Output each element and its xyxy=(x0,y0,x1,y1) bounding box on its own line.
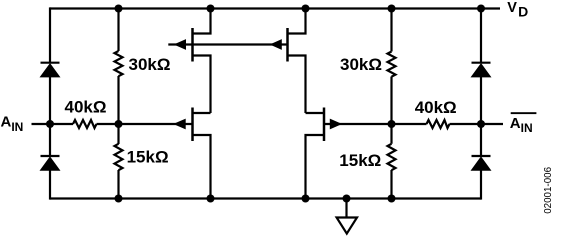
node dot top col5 xyxy=(388,5,396,13)
wire source Q4 xyxy=(306,135,325,199)
gate arrow Q3 xyxy=(175,119,186,128)
wire top rail VD xyxy=(50,7,500,9)
wire column5 mid xyxy=(390,77,392,144)
wire gate Q4 to node xyxy=(324,123,427,125)
svg-text:40kΩ: 40kΩ xyxy=(65,98,107,117)
node AIN xyxy=(46,120,54,128)
wire gate Q3 to bar xyxy=(97,123,193,125)
wire drain Q4 xyxy=(306,112,325,114)
wire drain Q1 xyxy=(193,9,211,34)
node dot ground tap xyxy=(343,195,351,203)
transistor Q2 channel bar xyxy=(286,28,289,62)
wire left column mid xyxy=(49,76,51,156)
wire column6 lower xyxy=(480,170,482,200)
resistor R3 40k left xyxy=(73,120,97,128)
svg-text:40kΩ: 40kΩ xyxy=(415,98,457,117)
wire column6 upper xyxy=(480,7,482,62)
transistor Q1 channel bar xyxy=(191,28,194,62)
node dot top col2 xyxy=(115,5,123,13)
wire column5 lower xyxy=(390,170,392,199)
gate arrow Q1 xyxy=(175,40,186,49)
diode D4 xyxy=(472,156,491,170)
wire left column lower xyxy=(49,170,51,200)
node dot mid col5 xyxy=(388,120,396,128)
svg-text:VD: VD xyxy=(507,0,528,19)
svg-text:15kΩ: 15kΩ xyxy=(127,148,169,167)
node dot bottom col3 xyxy=(207,195,215,203)
wire source Q1 xyxy=(193,56,211,114)
wire drain Q3 xyxy=(193,112,211,114)
ground xyxy=(337,218,357,234)
resistor R6 15k right xyxy=(388,144,396,170)
wire gate line Q1 Q2 xyxy=(168,43,287,45)
node dot bottom col4 xyxy=(302,195,310,203)
node dot mid col2 xyxy=(115,120,123,128)
resistor R1 30k left xyxy=(115,51,123,76)
resistor R5 30k right xyxy=(388,52,396,77)
wire source Q3 xyxy=(193,135,211,199)
transistor Q3 channel bar xyxy=(191,108,194,142)
diode D2 xyxy=(41,156,60,170)
wire source Q2 xyxy=(288,56,306,114)
wire ground stub xyxy=(345,199,347,218)
diode D1 xyxy=(41,63,60,77)
wire gate Q4 to AINB xyxy=(450,123,504,125)
svg-text:30kΩ: 30kΩ xyxy=(129,55,171,74)
gate arrow Q4 xyxy=(330,119,341,128)
node dot top col3 xyxy=(207,5,215,13)
gate arrow Q2 xyxy=(271,40,281,49)
diode D3 xyxy=(472,63,491,77)
wire column6 mid xyxy=(480,76,482,156)
wire bottom rail xyxy=(50,197,481,199)
node dot mid col6 xyxy=(477,120,485,128)
resistor R2 15k left xyxy=(115,144,123,170)
wire column2 lower xyxy=(117,170,119,199)
wire drain Q2 xyxy=(288,9,306,34)
wire column5 upper xyxy=(390,9,392,52)
node AIN-bar overline xyxy=(511,112,537,114)
svg-text:AIN: AIN xyxy=(1,113,24,133)
wire left column upper (AIN to D1) xyxy=(49,7,51,62)
transistor Q4 channel bar xyxy=(323,108,326,142)
wire column2 mid xyxy=(117,76,119,144)
node dot top col4 xyxy=(302,5,310,13)
resistor R4 40k right xyxy=(427,120,450,128)
svg-text:AIN: AIN xyxy=(510,115,533,135)
svg-text:30kΩ: 30kΩ xyxy=(340,55,382,74)
node dot bottom col2 xyxy=(115,195,123,203)
node dot bottom col5 xyxy=(388,195,396,203)
node dot top col6 xyxy=(477,5,485,13)
wire column2 upper xyxy=(117,9,119,52)
svg-text:02001-006: 02001-006 xyxy=(543,166,554,213)
wire gate Q3 from AIN node xyxy=(50,123,73,125)
svg-text:15kΩ: 15kΩ xyxy=(339,151,381,170)
wire AIN stub xyxy=(32,123,51,125)
